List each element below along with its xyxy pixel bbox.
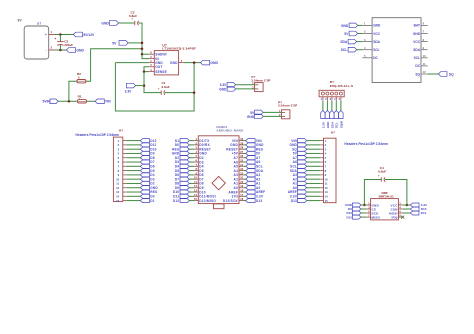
svg-text:ARDUINO_NANO: ARDUINO_NANO (216, 129, 244, 133)
no-connect IRQ (401, 216, 404, 219)
svg-text:SCL: SCL (414, 56, 420, 60)
nano usb connector (214, 204, 225, 209)
svg-text:BAT: BAT (414, 24, 420, 28)
svg-text:15: 15 (116, 199, 120, 203)
net flag ESQ SCL (334, 111, 339, 129)
wire nano left pin 8 (189, 170, 194, 172)
wire H2 pin 7 (307, 165, 321, 167)
svg-text:u?: u? (37, 22, 41, 26)
wire H1 pin 2 (126, 144, 140, 146)
svg-text:GND: GND (413, 32, 421, 36)
svg-text:5V/12V: 5V/12V (83, 33, 95, 37)
wire C4 left to GND (364, 180, 381, 206)
svg-text:+: + (54, 37, 56, 41)
svg-text:-: - (46, 49, 47, 53)
wire H1 pin 1 (126, 140, 140, 142)
capacitor C3 220uF (54, 35, 73, 51)
svg-text:6.8uF: 6.8uF (162, 85, 170, 89)
net flag D3 nano left (175, 160, 190, 164)
wire RTC SCL (357, 49, 363, 51)
net flag SCL RTC (341, 47, 357, 52)
net flag AREF H2 (288, 190, 307, 194)
svg-text:SDA: SDA (373, 40, 380, 44)
net flag SDA nano right (246, 169, 264, 173)
wire nano left pin 7 (189, 165, 194, 167)
svg-text:+: + (45, 33, 47, 37)
connector B1 ESQ-105-12-L-S (319, 80, 353, 101)
net flag 5V JP2 (250, 110, 263, 115)
wire nano right pin 3 (243, 148, 246, 150)
net flag RES nano right (246, 147, 263, 151)
net flag A3 nano right (246, 173, 261, 177)
net flag SQ RTC (438, 72, 454, 77)
wire H2 pin 4 (307, 152, 321, 154)
ground flag regulator (201, 60, 219, 65)
ground flag RTC (341, 23, 358, 28)
wire H2 pin 11 (307, 182, 321, 184)
net flag 3.3V JP1 (220, 83, 236, 88)
net flag 3.3V (125, 83, 136, 93)
wire nano left pin 6 (189, 161, 194, 163)
wire NRF left pin 3 (361, 212, 367, 214)
svg-text:MISO: MISO (372, 215, 381, 219)
net flag GND H1 (140, 186, 158, 190)
resistor R2 (76, 72, 86, 83)
wire ground loop (115, 63, 194, 111)
wire RTC SDA (357, 41, 363, 43)
svg-text:GND: GND (247, 115, 255, 119)
wire NRF right pin 2 (402, 208, 410, 210)
junction 5V flag (141, 42, 144, 45)
net flag 3.3V H2 (290, 194, 307, 198)
wire nano left pin 11 (189, 182, 194, 184)
connector H2 header 1x15 (320, 131, 388, 203)
svg-text:SCL: SCL (335, 122, 339, 128)
svg-text:ESQ-105-12-L-S: ESQ-105-12-L-S (330, 84, 353, 88)
ground flag battery (66, 48, 84, 53)
net flag A7 H2 (293, 156, 307, 160)
net flag D6 nano left (175, 173, 190, 177)
wire nano left pin 12 (189, 187, 194, 189)
wire ESQ pin 3 (331, 101, 333, 111)
wire H2 pin 2 (307, 144, 321, 146)
wire nano left pin 13 (189, 191, 194, 193)
wire H2 pin 8 (307, 170, 321, 172)
resistor R1 (77, 95, 87, 103)
svg-text:GND: GND (326, 121, 330, 129)
svg-text:R2: R2 (77, 72, 81, 76)
wire H2 pin 13 (307, 191, 321, 193)
wire C4 right to VCC (385, 180, 407, 206)
net flag 5V (112, 41, 128, 46)
wire nano right pin 14 (243, 195, 246, 197)
net flag SDA RTC (340, 39, 356, 44)
net flag D12 NRF left (346, 215, 361, 219)
wire NRF left pin 1 (361, 204, 367, 206)
net flag D12 H1 (140, 139, 156, 143)
wire GND to C2 (119, 22, 135, 24)
connector H1 header 1x15 (76, 128, 127, 202)
net flag D6 H1 (140, 164, 154, 168)
svg-text:D13: D13 (291, 199, 297, 203)
wire nano right pin 1 (243, 140, 246, 142)
svg-text:YIN: YIN (105, 100, 111, 104)
wire SHDN (142, 53, 149, 55)
net flag RES nano left (172, 147, 189, 151)
capacitor C2 6.8uF (129, 11, 139, 26)
wire H2 pin 15 (307, 200, 321, 202)
wire JP2 pin2 (263, 115, 281, 117)
svg-text:SQ: SQ (449, 72, 454, 76)
net flag D2 H1 (140, 181, 154, 185)
net flag D10 NRF right (410, 207, 426, 211)
svg-text:SDA: SDA (340, 40, 348, 44)
wire H2 pin 14 (307, 195, 321, 197)
net flag A7 nano right (246, 156, 261, 160)
wire GND pin to loop (115, 62, 149, 64)
connector JP2 2.54mm 1x2P (278, 100, 297, 118)
svg-text:SDA: SDA (330, 121, 334, 128)
wire nano left pin 1 (189, 140, 194, 142)
net flag D8 nano left (175, 181, 190, 185)
net flag A3 H2 (293, 173, 307, 177)
wire NRF right pin 1 (402, 204, 410, 206)
net flag 5V/12V (73, 32, 95, 37)
wire nano left pin 5 (189, 157, 194, 159)
svg-text:12: 12 (423, 70, 426, 74)
net flag ESQ SDA (330, 111, 335, 129)
net flag 3.3V NRF right (410, 203, 428, 207)
ground flag JP2 (247, 114, 263, 119)
net flag A2 H2 (293, 177, 307, 181)
svg-text:+: + (158, 87, 160, 91)
wire regulator GND out (184, 62, 201, 64)
wire H1 pin 6 (126, 161, 140, 163)
net flag RES H1 (140, 190, 157, 194)
wire H2 pin 12 (307, 187, 321, 189)
net flag SQ H2 (292, 147, 307, 151)
wire 3.3V flag (136, 85, 144, 87)
wire ESQ pin 4 (335, 101, 337, 111)
svg-text:IRQ: IRQ (392, 215, 398, 219)
svg-text:5VIN: 5VIN (42, 100, 50, 104)
wire nano left pin 9 (189, 174, 194, 176)
net flag D1 nano left (175, 139, 190, 143)
wire H1 pin 13 (126, 191, 140, 193)
wire OUT-SENSE jumper (144, 67, 149, 72)
svg-text:D12: D12 (346, 215, 352, 219)
junction C1 GND (193, 91, 196, 94)
net flag D13 NRF left (346, 211, 361, 215)
wire 5VIN to R1 (58, 100, 77, 102)
junction battery plus (59, 33, 62, 36)
net flag ESQ 3.3V (321, 111, 326, 129)
svg-text:2.54mm 1*2P: 2.54mm 1*2P (251, 79, 270, 83)
IC U5 NRF24L01 (367, 191, 403, 220)
net flag D11 NRF right (410, 211, 426, 215)
wire H2 pin 5 (307, 157, 321, 159)
net flag 5VIN (42, 99, 58, 104)
wire H1 pin 3 (126, 148, 140, 150)
wire H1 pin 4 (126, 152, 140, 154)
ground flag JP1 (219, 87, 236, 92)
IC NANO1 ARDUINO_NANO (194, 125, 244, 209)
wire JP1 pin2 (236, 88, 255, 90)
net flag 5V H2 (293, 151, 307, 155)
svg-text:D1: D1 (150, 199, 154, 203)
net flag VIN H2 (291, 139, 307, 143)
svg-text:SHDN#: SHDN# (155, 53, 167, 57)
wire IN (142, 54, 149, 58)
wire C1 to GND vertical (165, 92, 194, 94)
net flag D11 nano left (173, 194, 189, 198)
ground flag C2 (101, 21, 118, 26)
capacitor C4 6.8uF (378, 166, 387, 182)
wire H2 pin 3 (307, 148, 321, 150)
svg-text:15: 15 (325, 199, 329, 203)
net flag D12 nano left (173, 199, 190, 203)
wire nano left pin 15 (189, 200, 194, 202)
wire nano right pin 4 (243, 152, 246, 154)
svg-text:11: 11 (423, 62, 426, 66)
wire nano right pin 2 (243, 144, 246, 146)
net flag D11 H1 (140, 143, 156, 147)
svg-text:220uF: 220uF (64, 43, 73, 47)
svg-text:D11: D11 (421, 211, 427, 215)
net flag D7 nano left (175, 177, 190, 181)
net flag ESQ GND (325, 111, 330, 129)
svg-text:Headers Pins1x15P 2.54mm: Headers Pins1x15P 2.54mm (76, 133, 120, 137)
svg-text:NRF24L01: NRF24L01 (379, 194, 394, 198)
wire H2 pin 1 (307, 140, 321, 142)
nano logo diamond (212, 176, 225, 189)
wire H1 pin 5 (126, 157, 140, 159)
wire NRF left pin 4 (361, 216, 367, 218)
net flag D0 nano left (175, 143, 190, 147)
wire nano right pin 7 (243, 165, 246, 167)
wire 5V rail to R2 (86, 49, 142, 81)
wire nano right pin 11 (243, 182, 246, 184)
svg-text:10: 10 (423, 54, 426, 58)
svg-text:DC: DC (415, 64, 420, 68)
net flag A0 nano right (246, 186, 261, 190)
net flag D4 nano left (175, 164, 190, 168)
svg-text:D13/SCK: D13/SCK (223, 199, 239, 203)
wire battery plus net (55, 34, 74, 36)
svg-text:9V: 9V (18, 19, 23, 23)
net flag 5V nano right (246, 151, 261, 155)
net flag SCL nano right (246, 164, 263, 168)
svg-text:3.3V: 3.3V (321, 122, 325, 128)
wire nano right pin 13 (243, 191, 246, 193)
wire nano right pin 12 (243, 187, 246, 189)
wire nano right pin 15 (243, 200, 246, 202)
net flag D10 H1 (140, 147, 156, 151)
net flag SCL H2 (290, 164, 307, 168)
wire nano left pin 3 (189, 148, 194, 150)
wire nano right pin 8 (243, 170, 246, 172)
junction 3.3V (143, 84, 146, 87)
net flag D8 H1 (140, 156, 154, 160)
wire C2 to 5V rail (139, 23, 142, 54)
net flag D1 H1 (140, 199, 154, 203)
net flag D0 H1 (140, 194, 154, 198)
wire JP2 pin1 (263, 111, 281, 113)
wire ESQ pin 2 (326, 101, 328, 111)
net flag GND nano right (246, 143, 264, 147)
wire NRF right pin 3 (402, 212, 410, 214)
svg-text:D12/MISO: D12/MISO (199, 199, 216, 203)
wire H2 pin 10 (307, 178, 321, 180)
wire ESQ pin 5 (340, 101, 342, 111)
wire R1 to YIN (87, 100, 95, 102)
wire H2 pin 6 (307, 161, 321, 163)
svg-text:Headers Pins1x15P 2.54mm: Headers Pins1x15P 2.54mm (344, 142, 388, 146)
wire NRF left pin 2 (361, 208, 367, 210)
svg-text:GND: GND (101, 21, 109, 25)
wire H1 pin 14 (126, 195, 140, 197)
svg-text:D12: D12 (173, 199, 179, 203)
junction 5V rail (141, 48, 144, 51)
wire nano right pin 5 (243, 157, 246, 159)
wire nano left pin 10 (189, 178, 194, 180)
svg-text:SCL: SCL (373, 48, 379, 52)
net flag 5V RTC (344, 31, 357, 36)
wire H1 pin 7 (126, 165, 140, 167)
wire RTC GND (358, 24, 363, 26)
junction divider node (68, 100, 71, 103)
wire nano right pin 9 (243, 174, 246, 176)
wire RTC VCC (358, 33, 363, 35)
net flag A6 nano right (246, 160, 261, 164)
net flag D3 H1 (140, 177, 154, 181)
net flag A1 H2 (293, 181, 307, 185)
wire H1 pin 10 (126, 178, 140, 180)
wire nano left pin 4 (189, 152, 194, 154)
svg-text:SENSE: SENSE (155, 70, 167, 74)
wire nano left pin 14 (189, 195, 194, 197)
connector JP1 2.54mm 1x2P (251, 75, 270, 91)
svg-text:SQ: SQ (415, 72, 420, 76)
wire 3.3V vertical (144, 72, 161, 93)
net flag GND nano left (172, 151, 190, 155)
wire JP1 pin1 (236, 84, 255, 86)
net flag A1 nano right (246, 181, 261, 185)
junction C4 VCC (406, 204, 409, 207)
net flag A2 nano right (246, 177, 261, 181)
svg-text:H?: H? (119, 128, 123, 132)
wire 5V flag to rail (128, 42, 142, 44)
svg-text:GND: GND (373, 24, 381, 28)
wire H1 pin 15 (126, 200, 140, 202)
net flag D5 nano left (175, 169, 190, 173)
svg-text:SDA: SDA (413, 48, 420, 52)
svg-text:5V: 5V (112, 41, 117, 45)
net flag D2 nano left (175, 156, 190, 160)
net flag A6 H2 (293, 160, 307, 164)
net flag D9 nano left (175, 186, 190, 190)
net flag VIN nano right (246, 139, 263, 143)
net flag D7 H1 (140, 160, 154, 164)
net flag ESQ SQW (339, 111, 344, 129)
svg-text:2.54mm 1*2P: 2.54mm 1*2P (278, 104, 297, 108)
op-amp regulator U1 LT1963AEQ-3.3 (149, 43, 196, 75)
wire H1 pin 12 (126, 187, 140, 189)
net flag D5 H1 (140, 169, 154, 173)
net flag YIN (95, 99, 111, 104)
svg-text:GND: GND (76, 48, 84, 52)
junction battery minus (59, 49, 62, 52)
net flag A0 H2 (293, 186, 307, 190)
wire H1 pin 9 (126, 174, 140, 176)
svg-text:DC: DC (373, 56, 378, 60)
wire H1 pin 11 (126, 182, 140, 184)
net flag D9 H1 (140, 151, 154, 155)
svg-text:SQW: SQW (339, 121, 343, 128)
svg-text:GND: GND (219, 87, 227, 91)
svg-text:6.8uF: 6.8uF (129, 14, 137, 18)
junction regulator GND (193, 61, 196, 64)
net flag D10 nano left (173, 190, 190, 194)
wire RTC SQ (428, 73, 439, 75)
svg-text:VCC: VCC (413, 40, 420, 44)
svg-text:VCC: VCC (373, 32, 380, 36)
svg-text:LT1963AEQ-3.3#PBF: LT1963AEQ-3.3#PBF (162, 47, 196, 51)
svg-text:GND: GND (341, 24, 349, 28)
svg-text:+: + (378, 173, 380, 177)
wire nano right pin 10 (243, 178, 246, 180)
IC U2 RTC module (362, 18, 427, 83)
svg-text:3.3V: 3.3V (125, 90, 133, 94)
net flag AREF nano right (246, 190, 266, 194)
svg-text:OUT: OUT (155, 65, 162, 69)
svg-text:SCL: SCL (341, 48, 348, 52)
svg-text:D13: D13 (256, 199, 262, 203)
svg-text:GND: GND (170, 61, 178, 65)
wire node up to R2 (69, 81, 76, 101)
wire H1 pin 8 (126, 170, 140, 172)
junction C4 GND (363, 204, 366, 207)
net flag GND NRF left (345, 203, 361, 207)
wire battery minus net (55, 49, 67, 51)
svg-text:H?: H? (331, 131, 335, 135)
net flag D9 NRF left (348, 207, 361, 211)
svg-text:GND: GND (210, 61, 218, 65)
wire nano left pin 2 (189, 144, 194, 146)
battery U4 9V (18, 19, 55, 60)
net flag SDA H2 (290, 169, 307, 173)
capacitor C1 6.8uF (158, 81, 170, 95)
net flag D13 nano right (246, 199, 263, 203)
junction SHDN (141, 53, 144, 56)
wire H2 pin 9 (307, 174, 321, 176)
wire nano right pin 6 (243, 161, 246, 163)
net flag GND H2 (289, 143, 306, 147)
wire ESQ pin 1 (322, 101, 324, 111)
net flag D4 H1 (140, 173, 154, 177)
junction OUT-SENSE (143, 70, 146, 73)
net flag D13 H2 (291, 199, 307, 203)
net flag 3.3V nano right (246, 194, 264, 198)
